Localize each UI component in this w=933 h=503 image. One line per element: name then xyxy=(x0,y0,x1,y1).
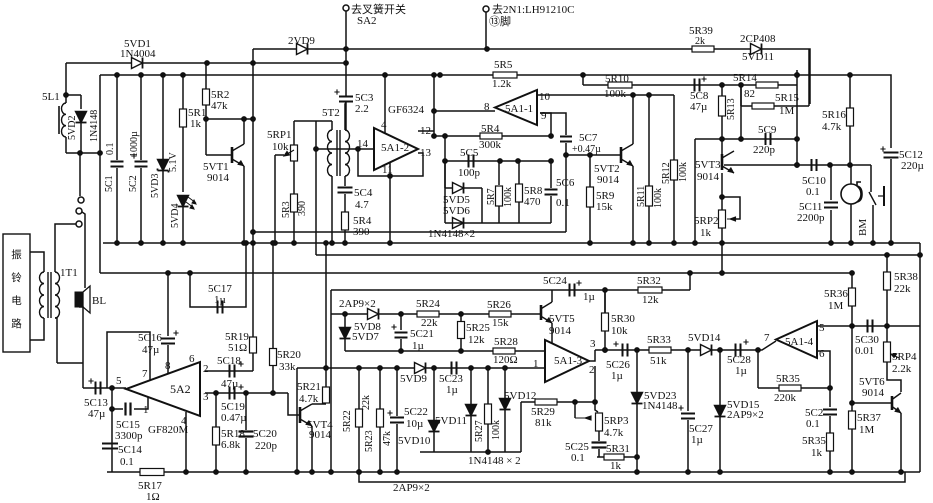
diode 5VD8 xyxy=(368,309,379,320)
svg-text:5R7: 5R7 xyxy=(486,188,497,205)
opamp 5A1-3 xyxy=(545,340,589,382)
svg-text:300k: 300k xyxy=(479,139,502,151)
svg-text:81k: 81k xyxy=(535,417,552,429)
svg-text:5C24: 5C24 xyxy=(543,275,567,287)
wire 5A1-3 output xyxy=(589,350,595,361)
svg-text:33k: 33k xyxy=(279,361,296,373)
svg-text:5VD6: 5VD6 xyxy=(443,205,470,217)
svg-text:10µ: 10µ xyxy=(406,418,423,430)
svg-text:10k: 10k xyxy=(611,325,628,337)
capacitor 5C13 47u xyxy=(95,382,97,395)
svg-text:5C1: 5C1 xyxy=(104,175,115,192)
svg-text:120Ω: 120Ω xyxy=(493,354,518,366)
svg-text:2AP9×2: 2AP9×2 xyxy=(727,409,764,421)
capacitor 5C25 0.1 xyxy=(598,431,600,441)
diode 5VD11 2CP408 xyxy=(751,44,762,55)
wire 1T1 left xyxy=(30,252,44,272)
svg-text:去叉簧开关: 去叉簧开关 xyxy=(351,2,406,16)
svg-text:47k: 47k xyxy=(382,431,393,446)
svg-text:100k: 100k xyxy=(604,88,627,100)
node 5C7/base xyxy=(564,153,569,158)
wire x331 box left xyxy=(330,290,332,472)
wire pin6 feedback xyxy=(817,351,830,388)
svg-text:2k: 2k xyxy=(695,36,705,47)
wire pin9 xyxy=(540,113,551,136)
svg-text:1: 1 xyxy=(533,358,539,370)
transistor 5VT5 9014 xyxy=(540,305,543,320)
svg-text:6: 6 xyxy=(819,348,825,360)
diode 5VD1 1N4004 xyxy=(132,58,143,69)
svg-text:2.2: 2.2 xyxy=(355,103,369,115)
svg-text:1M: 1M xyxy=(828,300,844,312)
resistor 5R24 22k xyxy=(417,311,439,317)
rail D y95 pin10 wire xyxy=(537,94,674,96)
svg-text:5C4: 5C4 xyxy=(354,187,373,199)
wire x445 xyxy=(444,136,446,188)
node pin5 dots xyxy=(850,324,855,329)
rail A y49 (switch bus with 2VD9 5R39 2CP408) xyxy=(253,49,810,104)
svg-text:4.7k: 4.7k xyxy=(299,393,319,405)
wire x741 xyxy=(740,83,742,139)
svg-text:47µ: 47µ xyxy=(690,101,707,113)
svg-text:15k: 15k xyxy=(596,201,613,213)
capacitor 5C16 47u xyxy=(167,273,169,336)
svg-text:100k: 100k xyxy=(653,188,664,208)
wire 5T2 left bottom xyxy=(331,176,333,243)
svg-text:5R13: 5R13 xyxy=(726,98,737,120)
svg-text:9014: 9014 xyxy=(862,387,885,399)
capacitor 5C14 0.1 xyxy=(102,443,118,445)
diode 5VD10 xyxy=(433,368,435,420)
svg-text:1k: 1k xyxy=(811,447,823,459)
svg-text:5C14: 5C14 xyxy=(118,444,142,456)
node A1 xyxy=(344,47,349,52)
diode 5VD9 xyxy=(415,363,426,374)
svg-text:2CP408: 2CP408 xyxy=(740,33,776,45)
wire y121 5RP1/5T2 top xyxy=(294,120,332,122)
resistor 5R39 2k xyxy=(692,46,714,52)
wire 5L1 to 5VD2 xyxy=(66,94,81,96)
capacitor 5C17 1u xyxy=(217,301,219,314)
svg-text:5VD12: 5VD12 xyxy=(504,390,536,402)
svg-text:2AP9×2: 2AP9×2 xyxy=(339,298,376,310)
svg-text:5R35: 5R35 xyxy=(776,373,800,385)
svg-text:0.1: 0.1 xyxy=(105,143,116,156)
resistor 5R7 100k xyxy=(498,161,500,185)
resistor 5R27 100k xyxy=(487,368,489,404)
svg-text:5VD10: 5VD10 xyxy=(398,435,431,447)
opamp 5A1-4 xyxy=(776,321,817,358)
svg-text:5VD4: 5VD4 xyxy=(170,204,181,228)
svg-text:10k: 10k xyxy=(272,141,289,153)
transistor 5VT2 9014 xyxy=(620,147,623,163)
wire 5RP4 to 5VT6 xyxy=(887,362,901,392)
svg-text:5R28: 5R28 xyxy=(494,336,518,348)
svg-text:0.1: 0.1 xyxy=(806,418,820,430)
wire x521 up xyxy=(520,402,522,452)
svg-text:1k: 1k xyxy=(190,118,202,130)
svg-text:5VD3: 5VD3 xyxy=(150,174,161,198)
svg-text:1µ: 1µ xyxy=(735,365,747,377)
node y165 dots xyxy=(828,163,833,168)
wire pin2 row y371 xyxy=(205,370,253,372)
row 5C9 y139 xyxy=(722,138,797,140)
wire x695 left boundary xyxy=(694,139,696,243)
capacitor 5C2 0.1 xyxy=(829,388,831,407)
resistor 5R4 300k xyxy=(480,133,502,139)
wire x809 right leg xyxy=(808,49,810,106)
rail G y273 xyxy=(100,272,852,274)
wire 5RP2 ground leg xyxy=(721,243,723,273)
svg-text:5A1-3: 5A1-3 xyxy=(554,355,583,367)
resistor 5R36 1M xyxy=(851,273,853,326)
wire pin7 loop xyxy=(107,332,150,388)
svg-text:5C9: 5C9 xyxy=(758,124,777,136)
svg-text:2.2k: 2.2k xyxy=(892,363,912,375)
wire 5R19 column xyxy=(252,243,254,337)
wire pin1 5C15 xyxy=(134,397,148,409)
transistor 5VT1 9014 xyxy=(231,147,234,163)
node E1 xyxy=(720,83,725,88)
svg-text:5RP4: 5RP4 xyxy=(892,351,917,363)
svg-text:220p: 220p xyxy=(255,440,278,452)
resistor 5R29 81k xyxy=(535,399,557,405)
node y314 dots xyxy=(399,312,404,317)
svg-text:5R24: 5R24 xyxy=(416,298,440,310)
resistor 5R9 15k xyxy=(589,155,591,187)
resistor 5R37 1M xyxy=(851,326,853,403)
node pin2/5R29 xyxy=(593,400,598,405)
node A2 xyxy=(485,47,490,52)
diode 5VD11b xyxy=(470,368,472,404)
pot 5RP3 4.7k xyxy=(574,402,576,418)
transistor 5VT4 9014 xyxy=(299,407,302,423)
wire pin4 stub xyxy=(185,412,187,421)
svg-text:5: 5 xyxy=(116,375,122,387)
speaker BL xyxy=(75,292,83,307)
capacitor 5C11 2200p xyxy=(830,165,832,200)
svg-text:5R15: 5R15 xyxy=(775,92,799,104)
svg-text:220k: 220k xyxy=(774,392,797,404)
box 振铃电路 xyxy=(3,234,30,352)
row 5R31 y457 xyxy=(597,456,637,458)
diode 5VD5 xyxy=(445,187,482,189)
svg-text:1µ: 1µ xyxy=(446,384,458,396)
wire 5VT1 base xyxy=(205,119,207,155)
svg-text:5R5: 5R5 xyxy=(494,59,513,71)
svg-text:1M: 1M xyxy=(859,424,875,436)
node 5L1 bottom xyxy=(64,93,69,98)
capacitor 5C7 0.47u xyxy=(540,112,551,114)
svg-text:6.8k: 6.8k xyxy=(221,439,241,451)
svg-text:1k: 1k xyxy=(700,227,712,239)
node x253 rail63 xyxy=(251,61,256,66)
wire pin14 xyxy=(316,148,374,150)
svg-text:5R14: 5R14 xyxy=(733,72,757,84)
resistor 5R26 15k xyxy=(489,311,511,317)
svg-text:5C5: 5C5 xyxy=(460,147,479,159)
capacitor 5C5 100p xyxy=(468,155,470,168)
wire 2VD9 column down xyxy=(252,49,254,243)
row 5R35 220k y388 xyxy=(758,387,830,389)
wire 5VT5 emitter xyxy=(551,323,553,351)
svg-text:5R36: 5R36 xyxy=(824,288,848,300)
svg-text:5R3: 5R3 xyxy=(281,201,292,218)
node pin3 dots xyxy=(214,391,219,396)
box top y290 xyxy=(331,289,552,291)
resistor 5R5 1.2k xyxy=(493,72,517,78)
wire 5VT1 emitter xyxy=(243,166,245,243)
LED 5VD4 xyxy=(178,196,189,207)
svg-text:6: 6 xyxy=(189,353,195,365)
svg-text:2VD9: 2VD9 xyxy=(288,35,315,47)
svg-text:5R30: 5R30 xyxy=(611,313,635,325)
svg-text:5VD11: 5VD11 xyxy=(435,415,467,427)
svg-text:220p: 220p xyxy=(753,144,776,156)
wire x112 column xyxy=(111,388,113,472)
resistor 5R14 82 xyxy=(756,82,778,88)
microphone BM xyxy=(850,165,852,184)
svg-text:5R31: 5R31 xyxy=(606,443,630,455)
wire y402 row xyxy=(521,401,595,403)
capacitor 5C3 2.2 xyxy=(339,96,353,98)
svg-text:5VD11: 5VD11 xyxy=(742,51,774,63)
svg-text:5C20: 5C20 xyxy=(253,428,277,440)
node E2 xyxy=(739,83,744,88)
svg-text:51k: 51k xyxy=(650,355,667,367)
opamp 5A1-1 xyxy=(495,90,537,125)
opamp 5A2 GF820M xyxy=(126,362,200,416)
wire pin5 row y326 xyxy=(817,325,920,327)
svg-text:5VT5: 5VT5 xyxy=(549,313,575,325)
diode 5VD7 vertical xyxy=(344,314,346,327)
wire y119 collector bus xyxy=(206,118,253,120)
capacitor 5C26 1u xyxy=(622,344,624,357)
svg-text:5R20: 5R20 xyxy=(277,349,301,361)
resistor 5R25 12k xyxy=(458,322,465,339)
wire 5VT4 emitter xyxy=(311,426,313,472)
svg-text:0.01: 0.01 xyxy=(855,345,874,357)
svg-text:5R11: 5R11 xyxy=(636,186,647,207)
resistor 5R38 22k xyxy=(886,255,888,272)
svg-text:1N4148 × 2: 1N4148 × 2 xyxy=(468,455,521,467)
wire 5VT6 emitter xyxy=(900,413,902,472)
zener 5VD3 5.1V xyxy=(162,75,164,159)
wire feedback to pin14 xyxy=(358,149,390,176)
svg-text:1T1: 1T1 xyxy=(60,267,78,279)
rail B y63 (5VD1 rail) xyxy=(66,62,346,64)
capacitor 5C30 0.01 xyxy=(867,320,869,333)
capacitor 5C18 47u xyxy=(229,365,231,378)
capacitor 5C12 220u xyxy=(884,152,899,154)
wire 5VT2 base xyxy=(566,154,621,156)
svg-text:7: 7 xyxy=(142,368,148,380)
svg-text:9014: 9014 xyxy=(207,172,230,184)
diode 5VD12 xyxy=(504,368,506,398)
capacitor 5C28 1u xyxy=(735,344,737,357)
wire pin11 to ground rail xyxy=(389,176,391,243)
transistor 5VT6 9014 xyxy=(891,396,894,410)
svg-text:5L1: 5L1 xyxy=(42,91,60,103)
resistor 5R22 22k xyxy=(358,368,360,409)
svg-text:5VT3: 5VT3 xyxy=(695,159,721,171)
diode 5VD14 xyxy=(701,345,712,356)
wire y363 xyxy=(57,362,83,364)
resistor 5R2 47k xyxy=(205,63,207,89)
row 5C24 y290 xyxy=(552,289,605,291)
resistor 5R30 wire down xyxy=(604,290,606,313)
svg-text:0.1: 0.1 xyxy=(120,456,134,468)
svg-text:1k: 1k xyxy=(610,460,622,472)
resistor 5R16 4.7k xyxy=(849,75,851,108)
svg-text:4.7k: 4.7k xyxy=(822,121,842,133)
svg-text:0.1: 0.1 xyxy=(571,452,585,464)
pot 5RP2 1k xyxy=(719,210,726,228)
svg-text:5C22: 5C22 xyxy=(404,406,428,418)
resistor 5R19 51 xyxy=(250,337,257,353)
svg-text:5RP3: 5RP3 xyxy=(604,415,629,427)
wire 5VT3 lower to 5RP2 xyxy=(721,173,723,211)
wire 2N1 down xyxy=(485,12,487,49)
svg-text:5R23: 5R23 xyxy=(364,430,375,452)
svg-text:10: 10 xyxy=(539,91,551,103)
svg-text:1N4148: 1N4148 xyxy=(89,110,100,142)
node B1 xyxy=(205,61,210,66)
svg-text:SA2: SA2 xyxy=(357,15,377,27)
capacitor 5C21 1u xyxy=(400,314,402,330)
bus y232 xyxy=(253,231,566,233)
svg-text:振: 振 xyxy=(11,248,22,261)
svg-text:GF820M: GF820M xyxy=(148,424,189,436)
capacitor 5C8 47u xyxy=(694,79,696,92)
svg-text:5.1V: 5.1V xyxy=(168,152,179,173)
resistor 5R4b 390 xyxy=(342,212,349,230)
svg-text:1.2k: 1.2k xyxy=(492,78,512,90)
node D1 xyxy=(631,93,636,98)
svg-text:9: 9 xyxy=(541,110,547,122)
resistor 5R13 xyxy=(721,85,723,96)
capacitor 5C20 220p xyxy=(245,393,247,430)
node D2 xyxy=(647,93,652,98)
node x830 xyxy=(828,386,833,391)
svg-text:5R35: 5R35 xyxy=(802,435,826,447)
svg-text:4: 4 xyxy=(381,119,387,131)
capacitor 5C1 0.1 xyxy=(116,75,118,160)
node wiper xyxy=(573,400,578,405)
wire hook middle to speaker xyxy=(82,212,85,288)
wire x605 xyxy=(604,290,606,350)
svg-text:5C7: 5C7 xyxy=(579,132,598,144)
wire 1T1 right bottom xyxy=(55,318,57,363)
wire y314 signal xyxy=(331,313,541,315)
node output dots xyxy=(603,348,608,353)
svg-text:⑬脚: ⑬脚 xyxy=(489,14,511,28)
svg-text:5R21: 5R21 xyxy=(297,381,321,393)
svg-text:5R4: 5R4 xyxy=(481,123,500,135)
svg-text:47µ: 47µ xyxy=(88,408,105,420)
svg-text:5A1-1: 5A1-1 xyxy=(505,103,533,115)
svg-text:GF6324: GF6324 xyxy=(388,104,425,116)
svg-text:5R32: 5R32 xyxy=(637,275,661,287)
svg-text:5T2: 5T2 xyxy=(322,107,340,119)
capacitor 5C4 4.7 xyxy=(338,187,353,189)
svg-text:1µ: 1µ xyxy=(412,340,424,352)
svg-text:470: 470 xyxy=(524,196,541,208)
pot 5RP4 2.2k xyxy=(886,326,888,342)
wire 5VT4 collector xyxy=(312,403,326,405)
svg-text:5R37: 5R37 xyxy=(857,412,881,424)
svg-text:0.47µ: 0.47µ xyxy=(221,412,247,424)
svg-text:9014: 9014 xyxy=(697,171,720,183)
capacitor 5C22 10u xyxy=(396,368,398,416)
svg-text:100k: 100k xyxy=(491,420,502,440)
rail C y75 (supply rail with 5R5) xyxy=(100,75,891,148)
capacitor 5C24 1u xyxy=(569,284,571,297)
wire x690 xyxy=(689,273,691,290)
diode 5VD23 1N4148 xyxy=(636,350,638,392)
svg-text:5C2: 5C2 xyxy=(128,175,139,192)
row 5R32 y290 xyxy=(605,289,690,291)
svg-text:220µ: 220µ xyxy=(901,160,924,172)
svg-text:5R38: 5R38 xyxy=(894,271,918,283)
svg-text:BL: BL xyxy=(92,295,106,307)
transistor 5VT3 9014 xyxy=(721,154,724,170)
svg-text:51Ω: 51Ω xyxy=(228,342,247,354)
node y368 dots xyxy=(324,366,329,371)
svg-text:3300p: 3300p xyxy=(115,430,143,442)
resistor 5R10 100k xyxy=(608,82,632,88)
svg-text:1µ: 1µ xyxy=(214,294,226,306)
node G1 xyxy=(166,271,171,276)
svg-text:5A1-4: 5A1-4 xyxy=(785,336,814,348)
svg-text:5R16: 5R16 xyxy=(822,109,846,121)
node G2 xyxy=(188,271,193,276)
svg-text:2: 2 xyxy=(589,364,595,376)
svg-text:5R33: 5R33 xyxy=(647,334,671,346)
wire pin4 xyxy=(384,75,386,133)
terminal 2N1 去2N1:LH91210C ⑬脚 xyxy=(483,6,489,12)
svg-text:5R27: 5R27 xyxy=(474,420,485,442)
svg-text:5RP1: 5RP1 xyxy=(267,129,291,141)
resistor 5R28 120ohm xyxy=(493,348,515,354)
wire pin13 feedback xyxy=(390,153,423,176)
bottom rail y472 xyxy=(107,471,920,473)
svg-text:1µ: 1µ xyxy=(691,434,703,446)
svg-text:4.7k: 4.7k xyxy=(604,427,624,439)
wire pin2 column xyxy=(594,366,596,402)
node 5R13 bottom xyxy=(720,137,725,142)
rail E y85 (5R10 5C8 5R14) xyxy=(582,75,584,85)
node C dots xyxy=(115,73,120,78)
wire pin12 xyxy=(418,130,434,132)
svg-text:5R26: 5R26 xyxy=(487,299,511,311)
node pin5 xyxy=(110,386,115,391)
svg-text:15k: 15k xyxy=(492,317,509,329)
diode 2VD9 xyxy=(297,44,308,55)
svg-text:2200p: 2200p xyxy=(797,212,825,224)
svg-text:BM: BM xyxy=(857,219,869,236)
capacitor 5C9 220p xyxy=(765,133,767,145)
svg-text:5A1-2: 5A1-2 xyxy=(381,142,409,154)
resistor 5R17 1ohm xyxy=(140,469,164,476)
wire 5T2 right top xyxy=(345,102,346,130)
node B2 xyxy=(344,61,349,66)
wire 5VT2 emitter xyxy=(632,166,634,243)
resistor 5R11 100k xyxy=(648,95,650,186)
svg-text:1Ω: 1Ω xyxy=(146,491,160,503)
svg-text:2: 2 xyxy=(203,363,209,375)
wire 5VT6 base xyxy=(852,402,892,404)
